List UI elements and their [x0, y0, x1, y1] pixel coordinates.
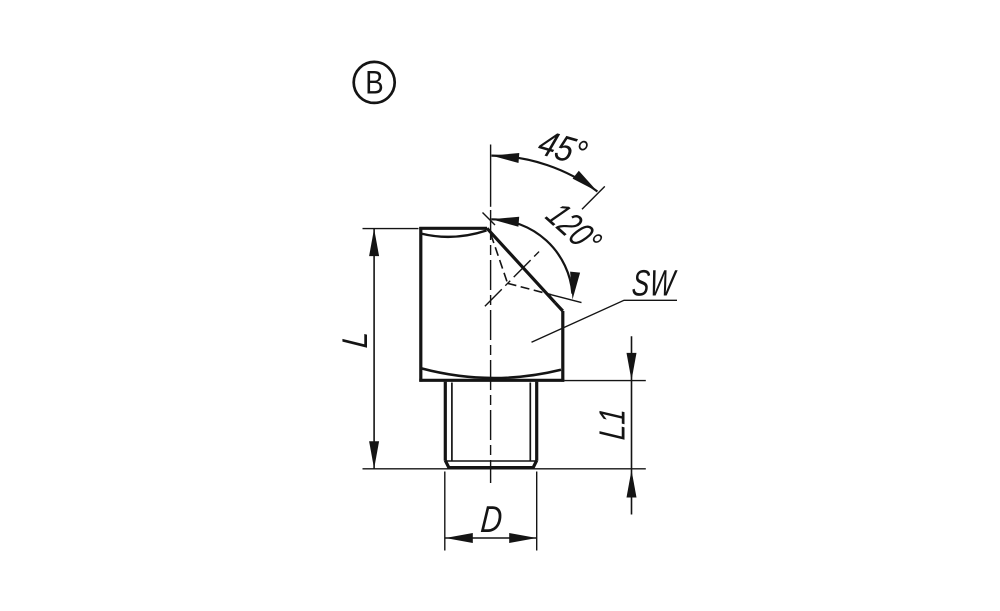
dimension D extension line left: [444, 472, 446, 551]
hex body top edge: [419, 227, 487, 230]
SW leader line: [532, 300, 678, 342]
120-degree dimension arc: [491, 219, 572, 293]
cut corner facet: [555, 303, 563, 311]
hex body top chamfer arc: [421, 231, 487, 237]
hex body bottom edge: [419, 379, 564, 382]
hidden drill cone left edge (dashed): [491, 235, 508, 284]
stud thread minor right: [529, 383, 531, 462]
dimension L line: [373, 229, 375, 469]
dimension L extension line top: [363, 228, 419, 230]
tilted cone axis (dash-dot): [485, 250, 541, 307]
svg-text:SW: SW: [630, 262, 678, 303]
hidden drill cone right edge (dashed): [508, 283, 552, 295]
45-degree dimension arc: [492, 156, 598, 192]
balloon circle B: [354, 62, 395, 103]
svg-text:B: B: [365, 65, 383, 101]
thread end line: [447, 460, 535, 462]
dimension L1 extension line upper: [565, 380, 646, 382]
vertical centerline (dash-dot): [490, 210, 492, 483]
svg-text:L: L: [335, 329, 375, 349]
cut-face extension line above peak: [483, 213, 496, 226]
stud thread minor left: [451, 383, 453, 462]
stud outer left (thread major): [444, 382, 447, 461]
dimension D line: [445, 537, 536, 539]
hex body right edge: [561, 311, 564, 382]
cone edge extension line: [552, 295, 582, 303]
45-deg arc arrow right: [573, 171, 598, 192]
svg-text:L1: L1: [591, 406, 632, 441]
svg-text:D: D: [479, 499, 504, 541]
D arrow left: [445, 533, 473, 543]
hex body bottom chamfer arc: [421, 368, 561, 378]
D arrow right: [509, 533, 537, 543]
120-deg arc arrow bottom: [570, 272, 580, 300]
L1 arrow upper: [627, 353, 637, 381]
dimension L1 line: [631, 336, 633, 514]
vertical extension line above peak: [490, 145, 492, 207]
45-degree cut face: [487, 228, 555, 302]
45-deg arc arrow left: [492, 153, 520, 163]
L arrow bottom: [369, 441, 379, 469]
stud outer right (thread major): [535, 382, 538, 461]
120-deg arc arrow top: [491, 217, 519, 227]
L arrow top: [369, 229, 379, 257]
stud bottom face: [448, 466, 535, 469]
L1 arrow lower: [627, 470, 637, 498]
stud bottom chamfer right: [533, 461, 537, 468]
dimension D extension line right: [536, 472, 538, 551]
tilted axis extension line (45-deg reference): [582, 186, 605, 209]
hex body left edge: [419, 227, 422, 382]
stud bottom chamfer left: [445, 461, 449, 468]
bottom extension line (L and L1): [363, 468, 646, 470]
